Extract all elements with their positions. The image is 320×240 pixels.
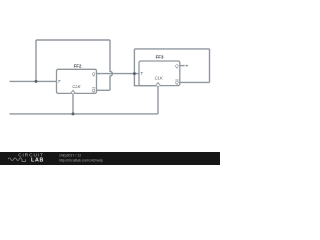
wire FF2 feedback left vertical <box>35 40 37 81</box>
svg-text:FF3: FF3 <box>156 54 164 59</box>
wire FF3 Qbar to feedback <box>180 81 210 83</box>
wire FF3 feedback top horizontal <box>134 48 209 50</box>
wire FF3 feedback left vertical (top rail down to node A) <box>133 49 135 74</box>
junction node at FF2 T input <box>35 80 38 83</box>
wire node A to FF3 T stub <box>134 73 139 75</box>
svg-text:LAB: LAB <box>31 157 44 163</box>
svg-text:Q: Q <box>175 63 179 68</box>
svg-text:CLK: CLK <box>72 84 80 89</box>
svg-text:FF2: FF2 <box>74 63 82 68</box>
svg-text:T: T <box>58 79 61 84</box>
flip-flop FF3 CLK wedge <box>155 83 160 86</box>
junction node A (FF2 Q / FF3 T / FF3 CLK / FF3 feedback) <box>133 72 136 75</box>
svg-text:http://circuitlab.com/c42mwtp: http://circuitlab.com/c42mwtp <box>59 158 103 162</box>
wire FF2 feedback top horizontal <box>36 39 110 41</box>
footer bar <box>0 152 220 165</box>
junction node on clock rail at FF2 CLK <box>72 112 75 115</box>
wire FF2 feedback right vertical upper (Qbar up to top) with hop over Q wire <box>110 40 112 90</box>
svg-text:CLK: CLK <box>155 76 163 81</box>
wire FF2 Q to node A <box>97 73 135 75</box>
svg-text:T: T <box>140 71 143 76</box>
svg-text:chirp2017 / 12: chirp2017 / 12 <box>59 154 81 158</box>
wire FF3 feedback right vertical <box>209 49 211 83</box>
wire FF3 Q stub end tick <box>186 65 188 67</box>
flip-flop FF2 CLK wedge <box>71 90 76 93</box>
svg-text:Q: Q <box>92 88 96 93</box>
flip-flop FF3 body <box>139 61 180 86</box>
pin label FF2 Qbar overline <box>92 87 95 89</box>
svg-text:Q: Q <box>175 80 179 85</box>
wire FF3 Q stub <box>180 65 185 67</box>
pin label FF3 Qbar overline <box>175 79 178 81</box>
wire FF3 CLK drop <box>157 86 159 114</box>
CircuitLab logo waveform <box>8 158 26 162</box>
wire FF2 CLK drop <box>72 93 74 114</box>
wire clock rail <box>10 113 159 115</box>
svg-text:Q: Q <box>92 71 96 76</box>
flip-flop FF2 body <box>57 69 97 93</box>
wire T-input rail to FF2 <box>10 80 57 82</box>
wire FF2 Qbar to feedback <box>97 89 111 91</box>
wire node A down to FF3 CLK routing <box>134 74 158 86</box>
